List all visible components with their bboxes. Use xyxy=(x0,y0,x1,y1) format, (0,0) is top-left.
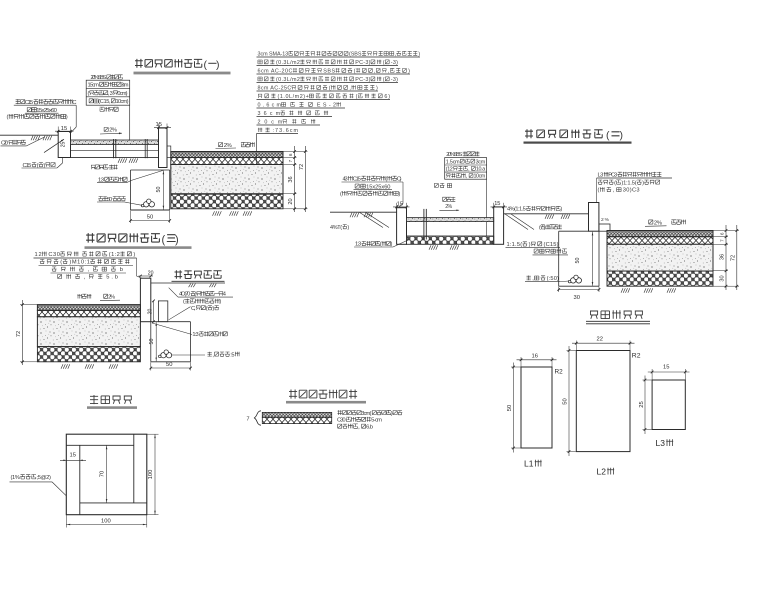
title underline bar fig.(3) xyxy=(85,246,192,249)
svg-text:36cm: 36cm xyxy=(258,111,281,117)
svg-text:): ) xyxy=(216,59,220,71)
note line: paver surface layer xyxy=(91,75,123,82)
svg-text:SBS: SBS xyxy=(323,68,335,74)
dim 50 left of L1 xyxy=(507,363,521,453)
earth hatch right ground fig2 xyxy=(545,214,570,219)
svg-text:(: ( xyxy=(7,115,9,121)
svg-text:70: 70 xyxy=(100,471,106,477)
svg-text:): ) xyxy=(175,234,179,246)
svg-text:,: , xyxy=(466,174,468,180)
dimension 15 left curb fig2 xyxy=(393,201,410,209)
svg-text:,: , xyxy=(349,85,351,91)
svg-text:ES-2: ES-2 xyxy=(317,102,336,108)
title: asphalt pavement structure fig.(2) xyxy=(525,129,623,141)
svg-text:,: , xyxy=(613,188,615,194)
svg-text:3cm: 3cm xyxy=(121,83,129,89)
green belt soil line xyxy=(151,282,225,284)
dimension 30 fig2 xyxy=(720,275,726,281)
boxed notes: sidewalk structure layers xyxy=(86,80,130,105)
note: weep pipe xyxy=(97,196,142,205)
bridge paving strip upper (dense hatch) xyxy=(262,412,331,417)
gutter stone beside curb xyxy=(167,146,171,158)
dim 70 tree pool xyxy=(100,445,108,503)
boxed notes: sidewalk layers fig2 xyxy=(445,158,487,180)
svg-text:(C15): (C15) xyxy=(544,242,559,248)
svg-text:(0.3L/m2: (0.3L/m2 xyxy=(276,77,300,83)
svg-text:(1%: (1% xyxy=(11,475,20,481)
svg-text:(: ( xyxy=(383,77,385,83)
svg-text:25: 25 xyxy=(639,401,645,407)
bottom dim 50 fig1 xyxy=(129,211,171,224)
curb type L2 rectangle xyxy=(576,351,630,452)
leader from fig3 notes to curb xyxy=(137,258,142,278)
svg-text:72: 72 xyxy=(299,164,305,170)
svg-text:,: , xyxy=(388,68,390,74)
svg-text:1:3: 1:3 xyxy=(192,332,198,338)
graded gravel subbase fig2 xyxy=(607,271,713,286)
label R2 on L2 xyxy=(632,353,641,360)
cement stabilized base (speckled) fig1 xyxy=(171,165,283,194)
svg-text:-3): -3) xyxy=(391,60,398,66)
svg-text:, 3: , 3 xyxy=(108,91,113,97)
svg-text:36: 36 xyxy=(720,254,726,260)
svg-text:C,: C, xyxy=(191,306,196,312)
svg-text:): ) xyxy=(219,299,221,305)
bottom dim 50 fig3 xyxy=(150,362,192,370)
svg-text:): ) xyxy=(133,252,135,258)
svg-text:3cm: 3cm xyxy=(476,159,486,165)
svg-text:7: 7 xyxy=(288,159,293,162)
svg-text:,: , xyxy=(374,68,376,74)
label L1 type xyxy=(524,459,542,469)
notes list: pavement layer descriptions fig.(1) xyxy=(257,51,421,134)
note: 4% slope grass fig2 xyxy=(507,206,562,213)
leader from curb note fig2 xyxy=(399,182,403,207)
label 2% on gutter fig2 xyxy=(601,217,610,223)
svg-text:(: ( xyxy=(614,180,616,186)
svg-text:30)C3: 30)C3 xyxy=(623,188,640,194)
svg-text:50: 50 xyxy=(166,362,172,368)
dimension 25 inside curb xyxy=(61,142,67,148)
dim 100 bottom tree pool xyxy=(66,515,147,528)
svg-text:5.b: 5.b xyxy=(106,275,118,281)
earth hatch under sidewalk xyxy=(118,158,138,163)
dim 100 right tree pool xyxy=(147,434,159,515)
svg-text:): ) xyxy=(212,306,214,312)
svg-text:15: 15 xyxy=(70,453,76,459)
svg-text::5: :5 xyxy=(230,352,234,358)
cement stabilized base fig3 xyxy=(37,317,140,347)
gutter stone fig2 xyxy=(599,224,610,231)
note: 1:3 mortar leveling xyxy=(97,177,127,184)
svg-text:(0.3L/m2: (0.3L/m2 xyxy=(276,60,300,66)
title: bridge sidewalk paving xyxy=(289,390,357,399)
title: asphalt pavement structure fig.(3) xyxy=(86,233,179,246)
svg-text:)M10:1: )M10:1 xyxy=(69,260,89,266)
svg-text:,: , xyxy=(532,276,534,282)
title underline bar fig.(2) xyxy=(524,142,632,144)
green belt title underline xyxy=(172,280,225,282)
leader from sidewalk notes to slab xyxy=(129,105,131,140)
svg-text:1.5cm: 1.5cm xyxy=(88,83,100,89)
svg-text:): ) xyxy=(642,180,644,186)
label R2 on L1 xyxy=(555,369,564,376)
svg-text:1.5cm: 1.5cm xyxy=(446,159,460,165)
tree pool outer square xyxy=(66,434,147,515)
asphalt binder course (cross hatch) fig1 xyxy=(171,158,283,165)
svg-text:(: ( xyxy=(88,91,90,97)
label L2 type xyxy=(597,467,615,477)
svg-text:100: 100 xyxy=(148,470,154,480)
svg-text:3cm(: 3cm( xyxy=(361,411,371,417)
svg-text:50: 50 xyxy=(507,405,513,411)
svg-text:(: ( xyxy=(354,68,356,74)
earth hatch below subbase fig1 xyxy=(213,211,252,216)
svg-text:3cm SMA-13: 3cm SMA-13 xyxy=(258,51,289,57)
svg-text:(:50): (:50) xyxy=(547,276,559,282)
bridge title underline bar xyxy=(286,401,366,404)
dimension extension lines fig1 right xyxy=(283,146,308,212)
svg-text:,: , xyxy=(358,424,360,430)
note line: paver color layer fig2 xyxy=(446,152,479,159)
svg-text:): ) xyxy=(66,115,68,121)
leader to mortar text fig3 xyxy=(152,323,192,335)
svg-text:20%SBS: 20%SBS xyxy=(446,152,462,158)
leader from notes box to slab fig2 xyxy=(486,179,488,240)
ground line left fig2 xyxy=(330,211,397,213)
svg-text:L2: L2 xyxy=(597,467,607,477)
leader from notes into base layer xyxy=(256,134,258,181)
svg-text:72: 72 xyxy=(16,331,22,337)
curb stone right fig2 (section) xyxy=(494,207,504,244)
dimension extension lines fig2 right xyxy=(713,225,739,290)
svg-text:7: 7 xyxy=(247,417,250,423)
note: weep pipe fig3 xyxy=(172,352,240,359)
curb stone at roadway fig2 xyxy=(589,203,599,232)
asphalt surface course fig2 xyxy=(607,231,713,237)
dimension ticks fig1 xyxy=(293,150,306,210)
svg-text:L3: L3 xyxy=(656,438,666,448)
svg-text:0cm): 0cm) xyxy=(117,91,127,97)
svg-text:,: , xyxy=(84,275,86,281)
svg-text:(C15,: (C15, xyxy=(98,99,111,105)
note line: backfill soil xyxy=(100,107,119,112)
svg-text:8cm AC-25C: 8cm AC-25C xyxy=(258,85,292,91)
svg-text:20: 20 xyxy=(288,198,294,204)
svg-text:L1: L1 xyxy=(524,459,534,469)
svg-text:(: ( xyxy=(340,192,342,198)
svg-text:): ) xyxy=(620,129,624,141)
svg-text:50: 50 xyxy=(563,398,569,404)
bottom dim 30 fig2 xyxy=(557,287,600,301)
svg-text:,: , xyxy=(468,166,470,172)
svg-text:2%: 2% xyxy=(108,295,115,301)
dim 50 inside drain box fig3 xyxy=(149,322,157,361)
svg-text:30: 30 xyxy=(574,295,580,301)
slope label 2% over sidewalk xyxy=(100,127,122,134)
note: sloped support foot fig2 xyxy=(506,242,561,248)
bridge paving strip lower (diagonal hatch) xyxy=(262,417,331,423)
svg-text:50: 50 xyxy=(147,214,153,220)
svg-text:L3: L3 xyxy=(598,173,604,179)
svg-text:2%: 2% xyxy=(445,204,452,210)
expansion joint ticks fig2 xyxy=(424,209,426,240)
notes right of bridge strip xyxy=(337,410,402,430)
earth hatch under slab fig2 xyxy=(429,245,459,250)
svg-text:(: ( xyxy=(606,129,610,141)
svg-text:(: ( xyxy=(183,299,185,305)
drain chamber box fig3 xyxy=(151,322,191,362)
joint tick 2 xyxy=(145,139,147,158)
curb back support block fig3 xyxy=(158,301,167,322)
svg-text:(: ( xyxy=(385,177,387,183)
svg-text:4%T(: 4%T( xyxy=(330,225,342,231)
graded gravel subbase (circles) fig1 xyxy=(171,194,283,209)
note: grass protection fig2 xyxy=(539,225,562,231)
graded gravel subbase fig3 xyxy=(37,347,140,362)
dim 15 tree pool xyxy=(60,453,86,462)
ground line left of curb xyxy=(0,134,58,136)
dimension 36 (base) fig1 xyxy=(288,176,294,182)
curb type L1 rectangle xyxy=(521,367,552,448)
note: weep pipe fig2 xyxy=(525,276,569,283)
svg-text:0.6cm: 0.6cm xyxy=(258,102,282,108)
title: curb stone detail xyxy=(590,310,643,319)
svg-text:): ) xyxy=(398,192,400,198)
svg-text:22: 22 xyxy=(597,336,603,342)
sidewalk paver layer (speckled) xyxy=(71,140,159,145)
svg-text:,: , xyxy=(88,267,90,273)
drain chamber box fig2 xyxy=(559,231,599,286)
svg-text:10cm: 10cm xyxy=(474,174,486,180)
slope label 2% roadway fig1 xyxy=(216,142,255,149)
dimension 36 fig2 xyxy=(720,254,726,260)
note: C15 sloped support foot xyxy=(22,158,63,169)
svg-text:(1.0L/m2)+: (1.0L/m2)+ xyxy=(278,94,309,100)
svg-text:C30: C30 xyxy=(337,418,346,424)
svg-text:R2: R2 xyxy=(555,369,564,376)
svg-text:): ) xyxy=(418,51,420,57)
svg-text:(12: (12 xyxy=(446,166,453,172)
green belt curb (tall) xyxy=(140,278,150,322)
dimension 15 (right curb width) xyxy=(154,122,171,130)
svg-text:(SBS: (SBS xyxy=(349,51,362,57)
earth hatch below subbase fig3 xyxy=(61,364,118,369)
svg-text:25: 25 xyxy=(61,142,67,148)
svg-text:100: 100 xyxy=(101,519,111,525)
svg-text:(: ( xyxy=(204,59,208,71)
dimension 72 fig2 xyxy=(730,255,736,261)
tree pool title underline bar xyxy=(87,406,137,409)
ground line right of curb fig2 xyxy=(504,213,589,215)
curly brace left of strip xyxy=(254,411,261,425)
pavement label fig3 xyxy=(77,294,120,301)
svg-text:C15: C15 xyxy=(353,177,361,183)
note: concrete hardening tree pool xyxy=(10,475,67,496)
svg-text:7: 7 xyxy=(720,239,725,242)
drain chamber box fig1 xyxy=(131,170,170,210)
svg-text:43: 43 xyxy=(343,177,348,183)
curb detail double underline xyxy=(586,321,650,324)
notes: PC3 concrete curb fig2 xyxy=(597,172,672,194)
svg-text:2%: 2% xyxy=(654,220,663,226)
svg-text:): ) xyxy=(347,225,349,231)
leader to bedding text xyxy=(127,170,163,182)
dimension 15 (left curb width) xyxy=(55,126,74,134)
embankment slope lines fig2 xyxy=(360,212,390,227)
svg-text:C30: C30 xyxy=(48,252,59,258)
note: compacted subgrade xyxy=(91,165,118,172)
svg-text::73.6cm: :73.6cm xyxy=(273,128,299,134)
svg-text:(: ( xyxy=(356,94,358,100)
notes: green belt curb text fig3 xyxy=(34,252,137,281)
svg-text:(: ( xyxy=(206,306,208,312)
svg-text:): ) xyxy=(376,85,378,91)
label L3 type xyxy=(656,438,674,448)
svg-text:)1:1.5(: )1:1.5( xyxy=(621,180,636,186)
dim 50 left of L2 xyxy=(563,346,576,456)
apron slope line into curb xyxy=(44,139,64,152)
weep hole circles fig1 xyxy=(141,199,154,207)
weep hole circles fig2 xyxy=(568,275,581,283)
title underline bar fig.(1) xyxy=(134,72,231,75)
svg-text:72: 72 xyxy=(730,255,736,261)
note: waterstop label fig2 xyxy=(434,183,451,187)
svg-text:;5@2): ;5@2) xyxy=(37,475,52,481)
sidewalk slab body fig2 xyxy=(407,222,494,245)
curb type L3 rectangle xyxy=(652,380,685,430)
dimension 15 right curb fig2 xyxy=(491,201,508,210)
svg-text:4%(1:1.5: 4%(1:1.5 xyxy=(507,207,526,213)
asphalt binder course fig3 xyxy=(37,310,140,316)
svg-text:50: 50 xyxy=(149,339,155,345)
svg-text:6): 6) xyxy=(384,94,390,100)
svg-text:(: ( xyxy=(539,225,541,231)
title: asphalt pavement structure fig.(1) xyxy=(135,59,220,71)
svg-text:-3): -3) xyxy=(391,77,398,83)
title: tree pool detail xyxy=(90,395,132,404)
earth hatch below subbase fig2 xyxy=(621,288,676,293)
pedestrian label fig2 xyxy=(439,197,459,211)
svg-text:PC-3): PC-3) xyxy=(355,77,370,83)
svg-text:36: 36 xyxy=(288,176,294,182)
note: C20 concrete label xyxy=(1,137,45,147)
svg-text:b: b xyxy=(120,267,123,273)
svg-text:12: 12 xyxy=(35,252,42,258)
svg-text:(: ( xyxy=(383,60,385,66)
svg-text:): ) xyxy=(560,207,562,213)
dimension 72 total fig1 xyxy=(299,164,305,170)
dim 16 over L1 xyxy=(517,353,557,366)
svg-text:10.a: 10.a xyxy=(476,166,485,172)
svg-text:6.b: 6.b xyxy=(366,424,373,430)
asphalt surface course fig3 xyxy=(37,305,140,311)
dim 15 over L3 xyxy=(648,364,690,379)
curb stone left (section) xyxy=(58,132,70,158)
svg-text:6: 6 xyxy=(288,153,293,156)
dim 50 inside drain box fig2 xyxy=(575,232,593,286)
svg-text:2%: 2% xyxy=(109,128,117,134)
asphalt surface course (dense hatch) fig1 xyxy=(171,152,283,158)
note: 1:3 mortar bedding fig2 xyxy=(354,240,408,248)
svg-text:PC-3): PC-3) xyxy=(355,60,370,66)
curb stone right (section) xyxy=(159,128,168,168)
svg-text:20cm: 20cm xyxy=(258,119,283,125)
earth hatch left ground fig2 xyxy=(350,213,373,218)
sidewalk slab body xyxy=(71,145,159,158)
svg-text:(: ( xyxy=(60,260,62,266)
leader support to text fig3 xyxy=(169,307,191,320)
slope label 2% roadway fig2 xyxy=(645,220,686,227)
notes under green belt title xyxy=(178,291,233,312)
svg-text:(: ( xyxy=(162,234,166,246)
asphalt binder course fig2 xyxy=(607,237,713,245)
svg-text:R2: R2 xyxy=(632,353,641,360)
leader from green belt note xyxy=(169,288,178,297)
small layer dims fig1 xyxy=(288,153,293,162)
earth hatch on left ground xyxy=(31,136,52,141)
svg-text:6: 6 xyxy=(720,232,725,235)
note: upper curb stone fig2 xyxy=(533,249,569,255)
svg-text:): ) xyxy=(391,411,393,417)
dim 20 above green belt curb xyxy=(139,271,154,278)
svg-text:): ) xyxy=(529,242,531,248)
tree pool inner pinwheel lines xyxy=(66,434,147,515)
dim 22 over L2 xyxy=(572,336,635,350)
leader from curb note fig2 xyxy=(596,178,598,202)
svg-text:50: 50 xyxy=(156,187,162,193)
note: 1:3 mortar fig3 xyxy=(192,332,227,339)
svg-text:1:1.5(: 1:1.5( xyxy=(507,242,523,248)
note: 4% concrete label fig2 xyxy=(330,225,349,231)
embankment slope right fig2 xyxy=(505,214,534,230)
dim 25 left of L3 xyxy=(639,376,652,435)
svg-text:(: ( xyxy=(598,188,600,194)
left dim line fig3 xyxy=(16,300,37,365)
svg-text:): ) xyxy=(408,68,410,74)
svg-text:PC3: PC3 xyxy=(608,173,617,179)
svg-text:30: 30 xyxy=(720,275,726,281)
svg-text:16: 16 xyxy=(532,353,538,359)
svg-text:6cm AC-20C: 6cm AC-20C xyxy=(258,68,293,74)
title: middle green belt xyxy=(175,270,222,279)
dimension 20 (subbase) fig1 xyxy=(288,198,294,204)
dim 50 inside drain box xyxy=(156,171,164,210)
note: curb stone text fig2 xyxy=(340,176,403,198)
note: precast curb stone text xyxy=(7,99,78,121)
svg-text:20: 20 xyxy=(148,309,154,315)
svg-text:15: 15 xyxy=(663,364,669,370)
svg-text:(: ( xyxy=(329,85,331,91)
dim 20 between curb and support xyxy=(148,300,155,323)
svg-text:50: 50 xyxy=(575,258,581,264)
expansion joint ticks xyxy=(114,139,116,158)
svg-text:,: , xyxy=(395,51,397,57)
gravel bedding under sidewalk fig2 xyxy=(407,236,494,244)
cement stabilized base fig2 xyxy=(607,244,713,271)
svg-text:10cm): 10cm) xyxy=(116,99,129,105)
curb stone left fig2 (section) xyxy=(397,208,407,245)
svg-text:5-cm: 5-cm xyxy=(371,418,382,424)
leader from curb text to curb xyxy=(71,105,77,133)
weep hole circles fig3 xyxy=(159,350,172,358)
svg-text:C): C) xyxy=(397,177,402,183)
small layer dims fig2 xyxy=(720,232,725,242)
label 7 left of brace xyxy=(247,417,250,423)
svg-text:(1:2: (1:2 xyxy=(109,252,120,258)
dimension ticks fig2 xyxy=(725,229,738,287)
svg-text:2%: 2% xyxy=(601,217,610,223)
